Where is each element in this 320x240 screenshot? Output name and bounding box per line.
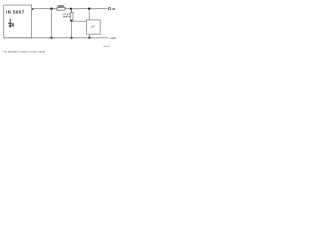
- IC U2: [87, 20, 101, 34]
- svg-text:Switch: Switch: [103, 45, 111, 48]
- power source box U1: [4, 5, 32, 38]
- resistor R1: [57, 8, 65, 11]
- node C: [88, 8, 90, 10]
- svg-text:+U: +U: [111, 7, 115, 11]
- wire top: [32, 8, 109, 10]
- wire vertical A: [50, 9, 52, 38]
- svg-text:+UAC: +UAC: [109, 37, 116, 40]
- node B2: [70, 37, 72, 39]
- svg-text:µP: µP: [91, 24, 95, 28]
- ground rail: [4, 37, 109, 39]
- capacitor C1: [70, 12, 73, 20]
- node A2: [50, 37, 52, 39]
- svg-text:* My favourite in approx power: * My favourite in approx power supply: [2, 51, 46, 54]
- pin tick: [32, 8, 33, 10]
- wire cap down: [71, 21, 73, 38]
- svg-text:IN 5807: IN 5807: [6, 9, 25, 14]
- svg-text:8: 8: [12, 22, 15, 27]
- node B: [70, 20, 72, 22]
- svg-text:SMD/A: SMD/A: [63, 16, 71, 19]
- node C2: [88, 37, 90, 39]
- wire cap to box: [72, 20, 87, 22]
- node R1-C1: [70, 8, 72, 10]
- battery symbol: [8, 19, 12, 28]
- wire to IC: [88, 9, 90, 20]
- terminal +U: [108, 8, 110, 10]
- wire cap top: [71, 9, 73, 13]
- wire IC down: [88, 34, 90, 38]
- node A: [50, 8, 52, 10]
- svg-text:680Ω: 680Ω: [57, 4, 65, 8]
